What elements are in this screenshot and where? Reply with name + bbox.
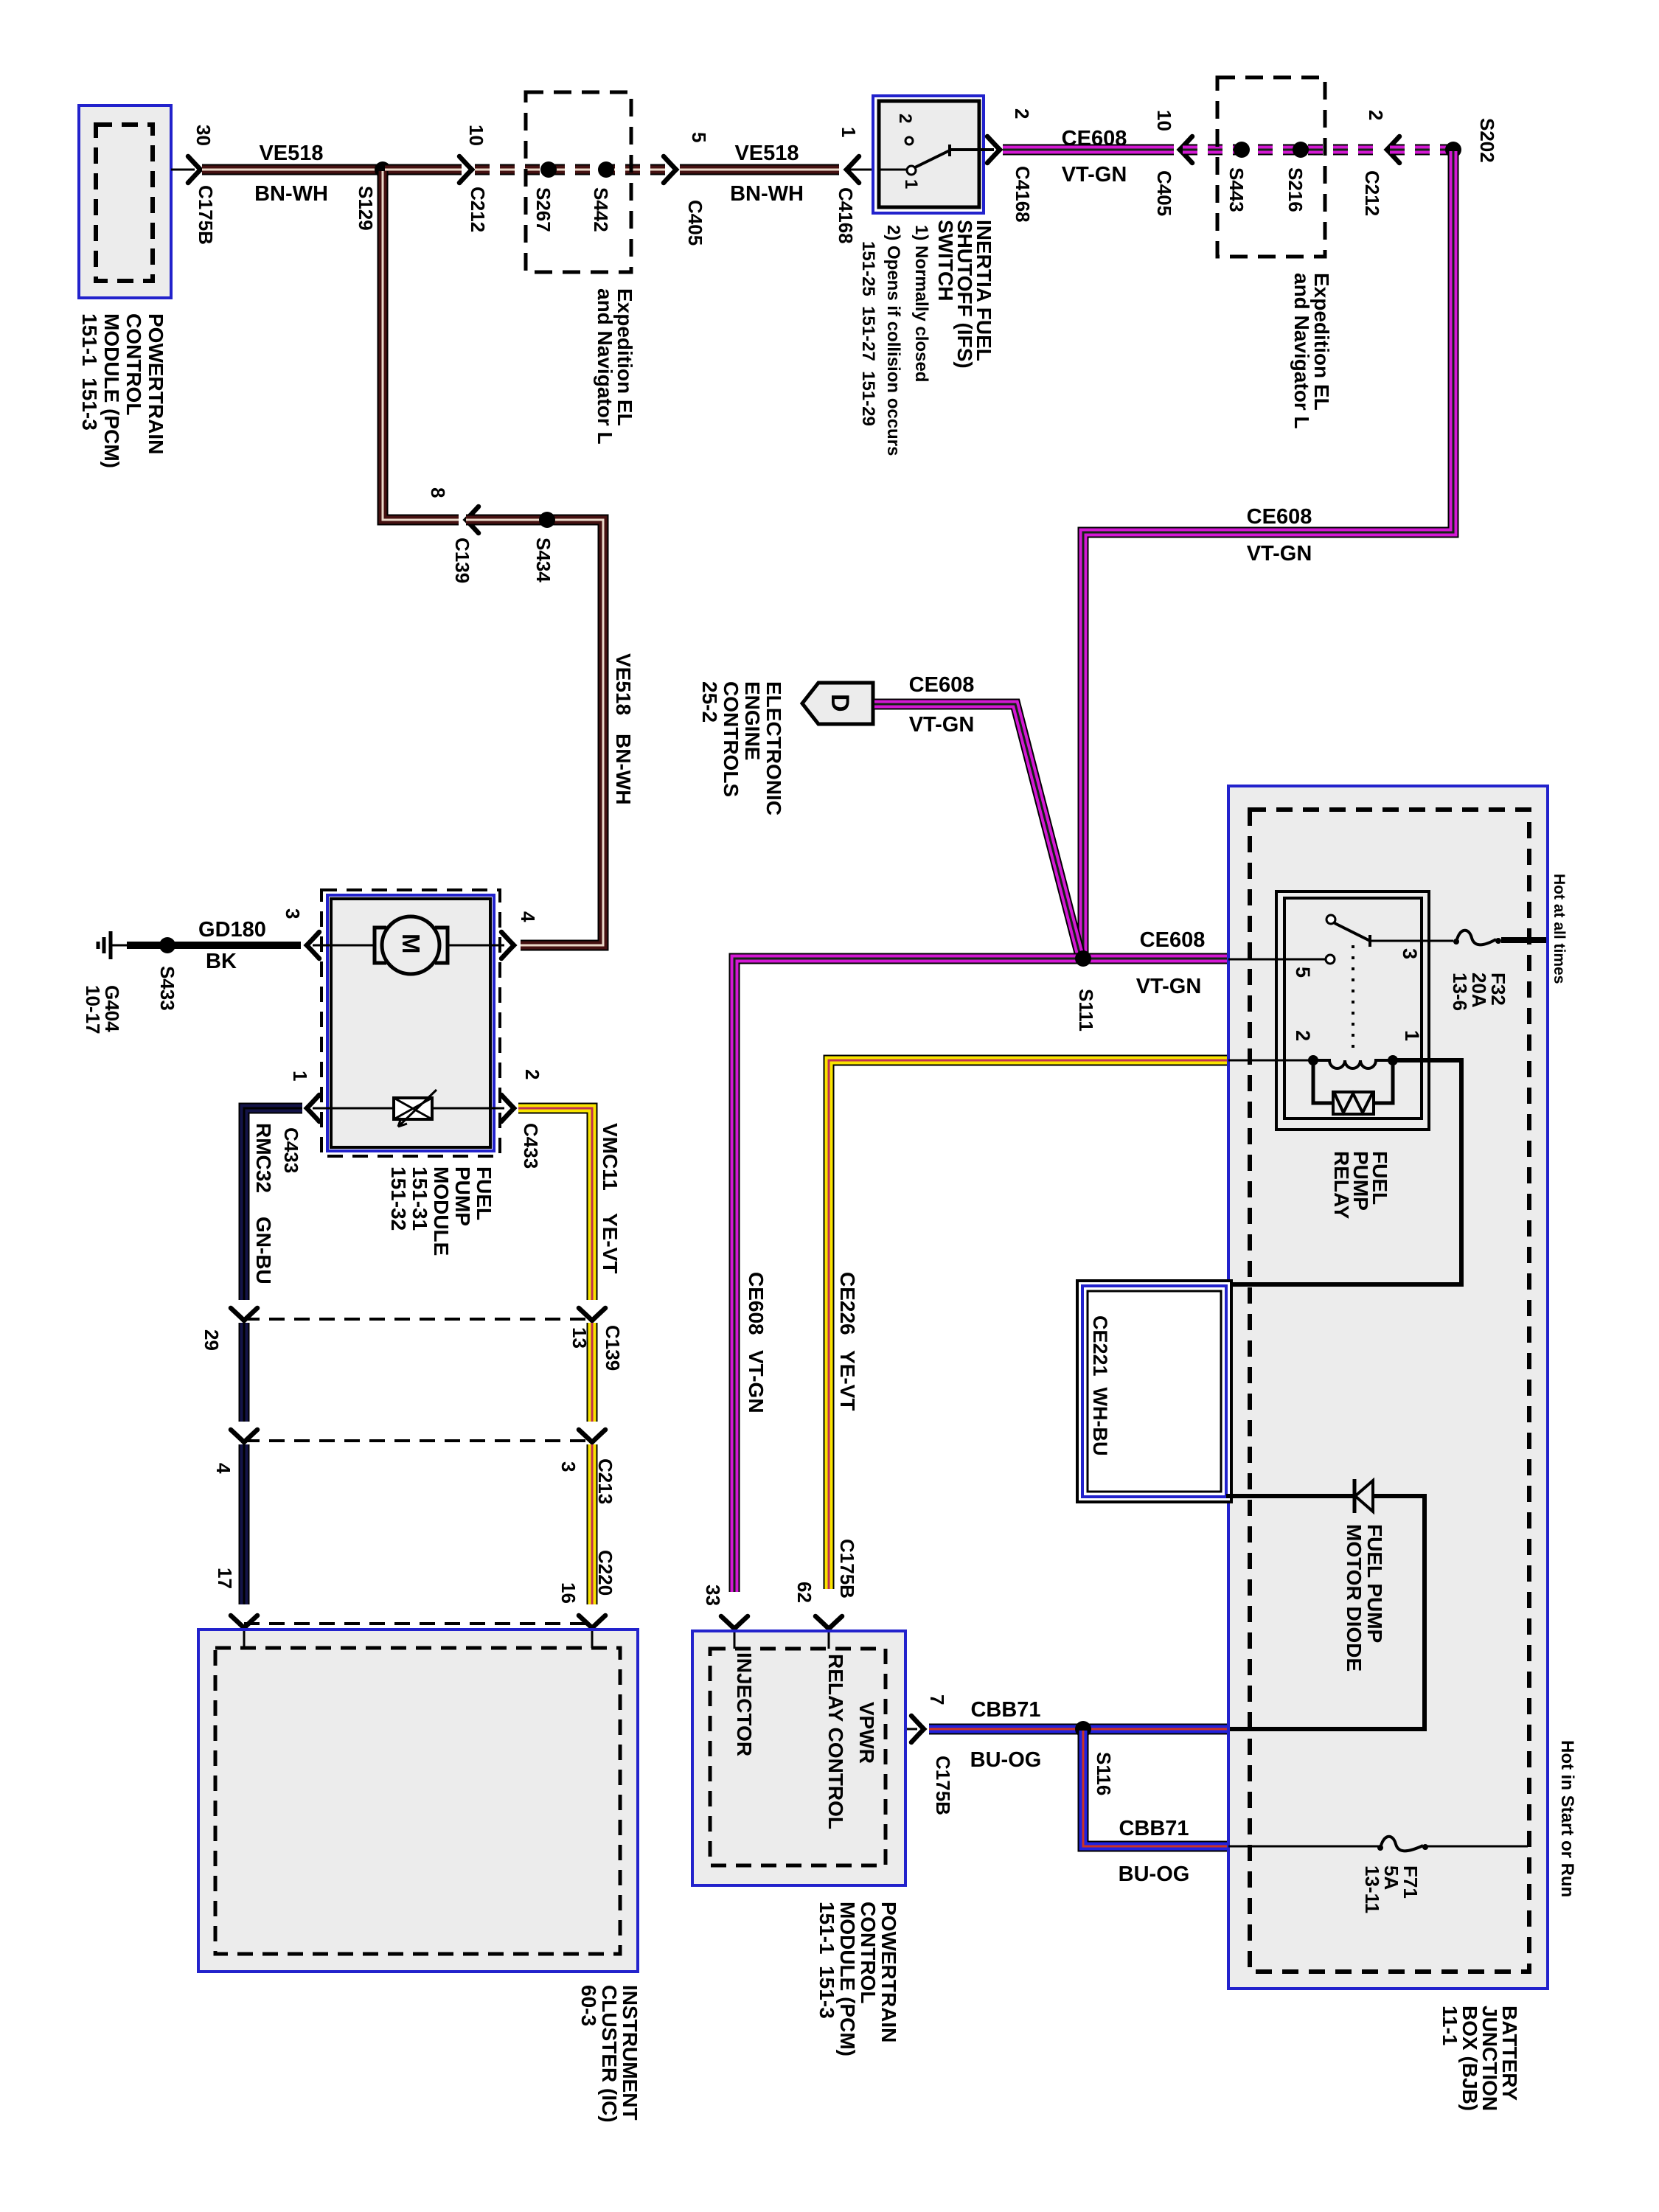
- svg-text:CBB71: CBB71: [1119, 1817, 1189, 1840]
- svg-text:2: 2: [1011, 108, 1033, 119]
- svg-text:VT-GN: VT-GN: [745, 1350, 768, 1413]
- svg-text:2) Opens if collision occurs: 2) Opens if collision occurs: [883, 225, 903, 456]
- svg-text:S129: S129: [355, 186, 377, 231]
- svg-text:BK: BK: [206, 950, 237, 973]
- svg-text:11-1: 11-1: [1439, 2006, 1461, 2046]
- svg-text:151-32: 151-32: [387, 1166, 410, 1231]
- svg-text:151-31: 151-31: [408, 1166, 431, 1231]
- svg-text:PUMP: PUMP: [451, 1166, 474, 1226]
- svg-text:S267: S267: [532, 187, 554, 232]
- svg-text:CLUSTER (IC): CLUSTER (IC): [598, 1985, 621, 2123]
- svg-text:D: D: [826, 694, 854, 712]
- svg-text:POWERTRAIN: POWERTRAIN: [145, 313, 167, 454]
- svg-text:C405: C405: [1153, 170, 1175, 216]
- svg-text:29: 29: [201, 1329, 223, 1351]
- svg-text:62: 62: [793, 1582, 815, 1603]
- svg-text:C405: C405: [684, 200, 706, 246]
- svg-text:25-2: 25-2: [698, 681, 721, 723]
- svg-text:RELAY: RELAY: [1330, 1151, 1353, 1220]
- svg-text:YE-VT: YE-VT: [599, 1213, 622, 1273]
- svg-text:BN-WH: BN-WH: [730, 182, 804, 206]
- svg-text:33: 33: [702, 1585, 724, 1606]
- svg-text:S442: S442: [590, 187, 612, 232]
- svg-text:1: 1: [838, 127, 860, 137]
- svg-text:10: 10: [465, 125, 487, 146]
- svg-text:VE518: VE518: [612, 653, 635, 715]
- svg-text:60-3: 60-3: [577, 1985, 600, 2026]
- svg-text:C4168: C4168: [835, 187, 857, 244]
- svg-text:BN-WH: BN-WH: [612, 734, 635, 804]
- svg-text:C139: C139: [602, 1325, 624, 1371]
- svg-text:S116: S116: [1093, 1752, 1115, 1795]
- svg-text:2: 2: [895, 114, 915, 123]
- svg-text:C212: C212: [1361, 170, 1383, 216]
- svg-text:CE608: CE608: [745, 1272, 768, 1335]
- svg-text:VT-GN: VT-GN: [909, 713, 975, 737]
- svg-text:2: 2: [1365, 110, 1387, 120]
- svg-text:13-6: 13-6: [1449, 973, 1471, 1011]
- svg-text:MODULE (PCM): MODULE (PCM): [836, 1902, 859, 2056]
- svg-text:CE608: CE608: [1140, 928, 1206, 952]
- svg-text:C433: C433: [520, 1123, 542, 1169]
- svg-text:GD180: GD180: [198, 918, 266, 942]
- svg-text:5: 5: [688, 132, 710, 142]
- svg-text:CE608: CE608: [1247, 505, 1312, 529]
- svg-text:7: 7: [926, 1694, 948, 1705]
- svg-text:151-1 151-3: 151-1 151-3: [78, 313, 101, 431]
- svg-text:C4168: C4168: [1012, 166, 1034, 223]
- svg-text:POWERTRAIN: POWERTRAIN: [877, 1902, 900, 2042]
- svg-text:and Navigator L: and Navigator L: [1290, 273, 1313, 429]
- svg-text:SWITCH: SWITCH: [934, 220, 957, 301]
- svg-text:C139: C139: [451, 538, 473, 583]
- svg-text:MODULE: MODULE: [430, 1166, 453, 1256]
- svg-text:16: 16: [557, 1582, 580, 1604]
- svg-text:VT-GN: VT-GN: [1247, 542, 1312, 566]
- svg-text:CONTROL: CONTROL: [857, 1902, 880, 2003]
- svg-text:C220: C220: [594, 1550, 616, 1596]
- svg-text:CONTROLS: CONTROLS: [720, 681, 742, 797]
- svg-text:1: 1: [289, 1071, 311, 1081]
- svg-text:17: 17: [214, 1568, 236, 1589]
- svg-text:5: 5: [1292, 967, 1314, 978]
- svg-text:MODULE (PCM): MODULE (PCM): [100, 313, 123, 468]
- svg-text:CE221 WH-BU: CE221 WH-BU: [1089, 1315, 1111, 1456]
- svg-text:CE608: CE608: [909, 673, 975, 697]
- svg-text:Hot at all times: Hot at all times: [1551, 874, 1568, 984]
- svg-text:10-17: 10-17: [82, 985, 104, 1034]
- svg-text:4: 4: [517, 911, 539, 922]
- svg-text:10: 10: [1153, 110, 1175, 131]
- svg-text:S202: S202: [1476, 118, 1498, 163]
- svg-text:BU-OG: BU-OG: [970, 1748, 1042, 1772]
- svg-text:INSTRUMENT: INSTRUMENT: [619, 1985, 641, 2121]
- svg-text:and Navigator L: and Navigator L: [594, 288, 616, 445]
- svg-text:S433: S433: [156, 966, 178, 1011]
- svg-text:ELECTRONIC: ELECTRONIC: [762, 681, 785, 815]
- svg-text:S216: S216: [1284, 167, 1307, 212]
- svg-text:VT-GN: VT-GN: [1062, 163, 1127, 187]
- svg-text:8: 8: [427, 487, 449, 498]
- svg-text:YE-VT: YE-VT: [836, 1350, 859, 1411]
- svg-text:ENGINE: ENGINE: [741, 681, 764, 760]
- svg-text:M: M: [397, 933, 425, 954]
- svg-text:INJECTOR: INJECTOR: [733, 1652, 756, 1756]
- svg-text:3: 3: [557, 1461, 580, 1472]
- svg-text:FUEL PUMP: FUEL PUMP: [1363, 1524, 1386, 1643]
- svg-text:2: 2: [521, 1069, 543, 1079]
- svg-text:13-11: 13-11: [1361, 1865, 1383, 1913]
- svg-text:RMC32: RMC32: [252, 1123, 275, 1193]
- svg-text:VPWR: VPWR: [855, 1702, 878, 1764]
- svg-text:C175B: C175B: [195, 185, 217, 245]
- svg-text:VE518: VE518: [259, 142, 323, 165]
- svg-text:S111: S111: [1075, 989, 1097, 1032]
- svg-text:30: 30: [192, 125, 215, 146]
- svg-text:1) Normally closed: 1) Normally closed: [911, 225, 931, 382]
- svg-text:CBB71: CBB71: [970, 1698, 1040, 1722]
- svg-text:Hot in Start or Run: Hot in Start or Run: [1557, 1740, 1577, 1897]
- svg-text:2: 2: [1292, 1030, 1314, 1041]
- svg-text:FUEL: FUEL: [473, 1166, 495, 1220]
- svg-text:GN-BU: GN-BU: [252, 1217, 275, 1284]
- svg-text:CE608: CE608: [1062, 127, 1127, 150]
- svg-text:C212: C212: [467, 187, 489, 232]
- svg-text:CE226: CE226: [836, 1272, 859, 1335]
- svg-text:VMC11: VMC11: [599, 1123, 622, 1191]
- svg-text:VT-GN: VT-GN: [1136, 975, 1202, 998]
- svg-text:BU-OG: BU-OG: [1119, 1863, 1190, 1886]
- svg-text:S434: S434: [532, 538, 554, 582]
- svg-text:RELAY CONTROL: RELAY CONTROL: [824, 1654, 847, 1829]
- svg-text:1: 1: [901, 179, 921, 189]
- svg-text:4: 4: [212, 1463, 234, 1474]
- svg-text:CONTROL: CONTROL: [122, 313, 145, 415]
- svg-text:VE518: VE518: [734, 142, 799, 165]
- svg-text:S443: S443: [1225, 167, 1248, 212]
- svg-text:151-25 151-27 151-29: 151-25 151-27 151-29: [858, 241, 878, 426]
- svg-text:C175B: C175B: [932, 1756, 954, 1815]
- svg-text:3: 3: [282, 908, 304, 919]
- svg-text:C175B: C175B: [836, 1539, 858, 1599]
- svg-text:C433: C433: [280, 1127, 302, 1173]
- svg-text:151-1 151-3: 151-1 151-3: [815, 1902, 838, 2019]
- svg-text:1: 1: [1401, 1030, 1423, 1041]
- svg-text:BN-WH: BN-WH: [254, 182, 328, 206]
- svg-text:3: 3: [1399, 948, 1421, 959]
- svg-text:MOTOR DIODE: MOTOR DIODE: [1343, 1524, 1366, 1672]
